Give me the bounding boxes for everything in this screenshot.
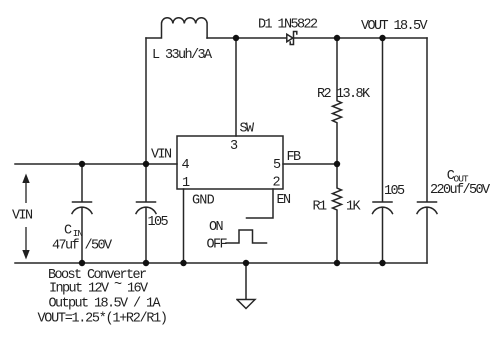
wire inductor left lead (VIN node up) <box>145 38 147 164</box>
svg-text:IN: IN <box>73 228 83 239</box>
svg-text:1N5822: 1N5822 <box>278 18 319 33</box>
svg-text:1K: 1K <box>346 200 362 215</box>
VIN source down arrow <box>22 250 29 260</box>
resistor R2 13.8K <box>333 38 342 164</box>
svg-text:105: 105 <box>384 184 405 199</box>
resistor R1 1K <box>333 164 342 263</box>
wire GND pin 1 lead <box>183 189 185 263</box>
svg-text:Input 12V ~ 16V: Input 12V ~ 16V <box>49 278 149 297</box>
svg-text:GND: GND <box>192 194 215 209</box>
VIN source up arrow <box>22 174 29 184</box>
svg-text:ON: ON <box>209 220 224 235</box>
svg-text:VIN: VIN <box>12 209 33 224</box>
svg-text:L 33uh/3A: L 33uh/3A <box>152 48 213 63</box>
capacitor C2 105 input bypass <box>136 164 156 263</box>
inductor L 33uh/3A <box>146 18 207 38</box>
svg-text:FB: FB <box>287 150 302 165</box>
svg-text:3: 3 <box>230 139 238 154</box>
ON/OFF pulse waveform <box>226 230 267 243</box>
ground symbol <box>237 263 255 309</box>
capacitor C3 105 output bypass <box>373 38 393 263</box>
svg-text:R2: R2 <box>317 87 332 102</box>
wire VIN input rail <box>15 163 177 165</box>
wire top VOUT rail (left of diode) <box>207 37 287 39</box>
svg-text:13.8K: 13.8K <box>336 87 371 102</box>
svg-text:OFF: OFF <box>207 238 228 253</box>
wire FB to divider <box>283 163 337 165</box>
diode D1 1N5822 <box>287 34 293 42</box>
svg-text:47uf /50V: 47uf /50V <box>52 239 113 254</box>
svg-text:R1: R1 <box>313 200 328 215</box>
wire EN pin 2 lead <box>247 189 274 218</box>
svg-text:VIN: VIN <box>151 148 172 163</box>
svg-text:4: 4 <box>182 158 190 173</box>
svg-text:220uf/50V: 220uf/50V <box>430 183 491 198</box>
svg-text:D1: D1 <box>258 18 273 33</box>
wire SW vertical <box>235 38 237 136</box>
op-amp U1 regulator IC body <box>177 136 283 189</box>
capacitor CIN 47uf/50V <box>72 164 92 263</box>
capacitor COUT 220uf/50V <box>417 38 437 263</box>
svg-text:SW: SW <box>240 122 256 137</box>
wire bottom ground rail <box>15 262 427 264</box>
svg-text:EN: EN <box>277 193 292 208</box>
svg-text:VOUT=1.25*(1+R2/R1): VOUT=1.25*(1+R2/R1) <box>38 312 167 327</box>
junction node dots <box>79 35 386 266</box>
svg-text:C: C <box>64 224 72 239</box>
svg-text:105: 105 <box>148 215 169 230</box>
wire top VOUT rail (right of diode) <box>294 37 428 39</box>
svg-text:Output 18.5V / 1A: Output 18.5V / 1A <box>49 297 162 312</box>
svg-text:VOUT 18.5V: VOUT 18.5V <box>361 19 429 34</box>
svg-text:5: 5 <box>273 158 281 173</box>
